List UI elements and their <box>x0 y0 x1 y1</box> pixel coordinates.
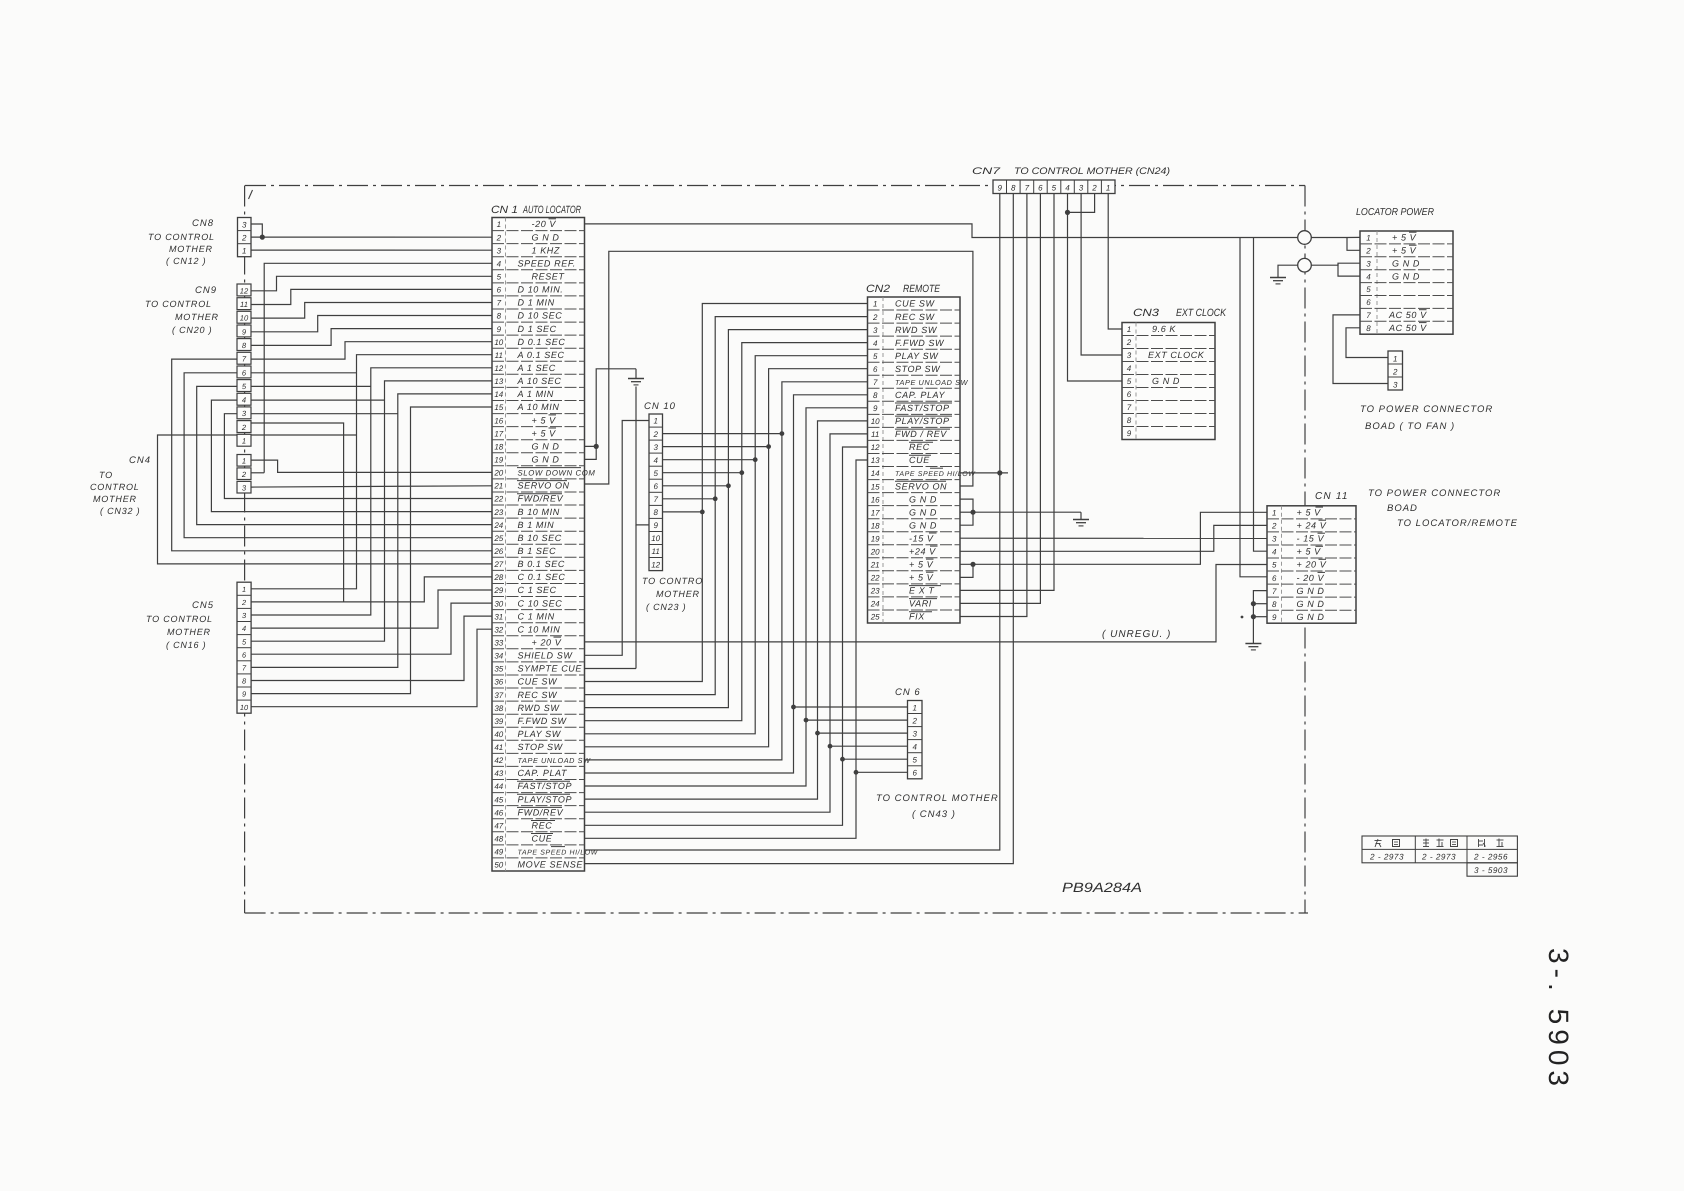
wire CN9 pin7 to CN1 pin10 <box>251 342 492 359</box>
svg-text:23: 23 <box>870 587 880 596</box>
svg-text:C 10 SEC: C 10 SEC <box>518 598 563 608</box>
svg-text:B 1 SEC: B 1 SEC <box>518 546 557 556</box>
svg-text:+ 24 V: + 24 V <box>1297 521 1327 531</box>
svg-text:29: 29 <box>493 586 503 595</box>
svg-text:LOCATOR POWER: LOCATOR POWER <box>1356 207 1434 218</box>
svg-text:7: 7 <box>873 378 878 387</box>
wire CN9 pin9 to CN1 pin8 <box>251 316 492 332</box>
svg-text:21: 21 <box>870 561 880 570</box>
svg-text:A 10 MIN: A 10 MIN <box>517 402 560 412</box>
connector LOCATOR POWER (8-pin table) <box>1356 207 1453 334</box>
svg-text:STOP SW: STOP SW <box>518 742 564 752</box>
svg-text:24: 24 <box>870 600 880 609</box>
svg-text:A 0.1 SEC: A 0.1 SEC <box>517 350 565 360</box>
wire CN9 pin12 to CN1 pin5 <box>251 276 492 291</box>
wire CN4 pin1 to CN1 pin20 SLOW DOWN COM <box>251 460 492 472</box>
svg-text:( CN12 ): ( CN12 ) <box>166 256 206 266</box>
wire CN1 pin14 bus to CN5 pin7 <box>251 394 492 668</box>
svg-text:3: 3 <box>1272 535 1277 544</box>
svg-text:MOTHER: MOTHER <box>167 627 211 637</box>
svg-text:3: 3 <box>1079 184 1084 193</box>
svg-text:45: 45 <box>494 795 503 804</box>
svg-text:TAPE UNLOAD SW: TAPE UNLOAD SW <box>518 756 592 765</box>
wire CN2 pin8 to CN1 pin43 <box>585 395 868 773</box>
svg-text:CUE: CUE <box>532 834 553 844</box>
svg-text:+ 5 V: + 5 V <box>1392 233 1417 243</box>
svg-text:CN5: CN5 <box>192 600 214 611</box>
svg-text:PB9A284A: PB9A284A <box>1062 880 1142 895</box>
wire CN9 pin5 loop to CN1 pin24 <box>197 386 492 524</box>
junction CN6 pin5 <box>840 757 845 762</box>
svg-text:10: 10 <box>871 417 880 426</box>
svg-text:1: 1 <box>497 220 501 229</box>
svg-text:G N D: G N D <box>1297 612 1325 622</box>
svg-text:48: 48 <box>494 835 503 844</box>
wire CN2 pin4 to CN1 pin39 <box>585 343 868 721</box>
svg-text:REC: REC <box>532 821 553 831</box>
svg-text:3-. 5903: 3-. 5903 <box>1543 948 1574 1086</box>
svg-text:SHIELD SW: SHIELD SW <box>518 651 574 661</box>
svg-text:2: 2 <box>241 233 247 242</box>
svg-text:G N D: G N D <box>1152 376 1180 386</box>
connector CN1 AUTO LOCATOR (50-pin table) <box>491 204 599 871</box>
svg-text:2: 2 <box>1365 247 1371 256</box>
wire CN9 pin3 loop to CN1 pin22 <box>224 414 492 499</box>
wire CN5 pin6 to CN1 pin30 <box>251 603 492 654</box>
connector CN6 (6-pin) <box>895 687 922 779</box>
wire CN2 pin2 to CN1 pin37 <box>585 317 868 695</box>
svg-text:+ 5 V: + 5 V <box>909 560 934 570</box>
svg-text:TO POWER CONNECTOR: TO POWER CONNECTOR <box>1368 488 1501 499</box>
label TO CONTROL MOTHER (CN12) <box>148 232 215 266</box>
svg-text:EXT CLOCK: EXT CLOCK <box>1176 307 1227 319</box>
svg-text:CN9: CN9 <box>195 285 217 296</box>
border frame right dash-dot line <box>1304 186 1306 914</box>
svg-text:2 - 2973: 2 - 2973 <box>1369 853 1404 862</box>
svg-text:FWD / REV: FWD / REV <box>895 429 947 439</box>
svg-text:CN8: CN8 <box>192 218 214 229</box>
wire CN7 pin7 to CN2 pin25 FIX <box>960 194 1027 617</box>
svg-text:6: 6 <box>1272 574 1277 583</box>
svg-text:TO CONTROL MOTHER: TO CONTROL MOTHER <box>876 793 999 804</box>
svg-text:1: 1 <box>1393 355 1397 364</box>
svg-text:D 10 MIN.: D 10 MIN. <box>518 285 564 295</box>
svg-text:RESET: RESET <box>532 272 566 282</box>
svg-text:2: 2 <box>241 423 247 432</box>
wire CN6 pin2 stub <box>806 719 908 721</box>
svg-text:TO POWER CONNECTOR: TO POWER CONNECTOR <box>1360 404 1493 415</box>
svg-text:TAPE SPEED HI/LOW: TAPE SPEED HI/LOW <box>895 470 976 478</box>
svg-text:TO CONTROL MOTHER (CN24): TO CONTROL MOTHER (CN24) <box>1014 166 1170 177</box>
svg-text:CAP. PLAT: CAP. PLAT <box>518 768 568 778</box>
svg-text:8: 8 <box>497 312 502 321</box>
svg-text:17: 17 <box>871 508 880 517</box>
svg-text:43: 43 <box>494 769 503 778</box>
svg-text:TO CONTROL: TO CONTROL <box>145 299 212 309</box>
svg-text:15: 15 <box>871 482 880 491</box>
wire CN10 pin7 stub <box>663 498 716 500</box>
wire CN1 pin18/19 GND bracket <box>585 446 597 459</box>
junction CN11 pin9 <box>1251 614 1256 619</box>
junction CN7 pin9 / CN2 pin14 <box>997 470 1002 475</box>
wire CN9 pin3 stub to bus <box>251 413 398 415</box>
svg-text:1: 1 <box>1272 509 1276 518</box>
svg-text:CN7: CN7 <box>972 166 1001 177</box>
wire CN2 pin6 to CN1 pin41 <box>585 369 868 747</box>
connector bubble circle upper on border <box>1298 231 1312 245</box>
wire CN9 pin1 loop to CN1 pin27 <box>158 435 493 564</box>
wire CN8 pin3 bracket to pin2 <box>251 224 262 237</box>
wire CN10 pin4 stub <box>663 459 756 461</box>
svg-text:24: 24 <box>493 521 503 530</box>
svg-text:F.FWD SW: F.FWD SW <box>518 716 568 726</box>
svg-text:2: 2 <box>241 598 246 607</box>
svg-text:( UNREGU. ): ( UNREGU. ) <box>1102 629 1171 640</box>
connector CN8 (3-pin) <box>192 218 251 257</box>
svg-text:20: 20 <box>493 469 503 478</box>
svg-text:TAPE UNLOAD SW: TAPE UNLOAD SW <box>895 378 969 387</box>
svg-text:G N D: G N D <box>909 520 937 530</box>
svg-text:16: 16 <box>494 416 503 425</box>
wire CN6 pin1 stub <box>794 706 908 708</box>
svg-text:31: 31 <box>494 612 503 621</box>
svg-text:26: 26 <box>493 547 503 556</box>
label TO CONTRO MOTHER (CN23) <box>642 576 703 612</box>
svg-text:27: 27 <box>493 560 503 569</box>
connector CN3 EXT CLOCK (9-pin table) <box>1122 307 1227 440</box>
svg-text:44: 44 <box>494 782 503 791</box>
label ( UNREGU. ) <box>1102 629 1171 640</box>
wire CN7 pin9 to CN1 pin49 TAPE SPEED <box>585 194 1000 851</box>
connector CN4 (3-pin) <box>129 455 251 494</box>
svg-text:34: 34 <box>494 652 503 661</box>
svg-text:G N D: G N D <box>1392 271 1420 281</box>
svg-text:12: 12 <box>240 286 249 295</box>
wire CN1 pin13 bus to CN5 pin5 <box>251 381 492 641</box>
svg-text:7: 7 <box>1025 184 1030 193</box>
wire CN10 pin2 stub <box>663 433 782 435</box>
wire CN6 pin6 stub <box>856 771 908 773</box>
svg-text:1: 1 <box>653 417 657 426</box>
svg-text:50: 50 <box>494 861 503 870</box>
svg-text:REC SW: REC SW <box>895 312 936 322</box>
svg-text:3: 3 <box>1127 351 1132 360</box>
svg-text:39: 39 <box>494 717 503 726</box>
svg-text:G N D: G N D <box>1297 586 1325 596</box>
svg-text:D 10 SEC: D 10 SEC <box>518 311 563 321</box>
svg-text:1: 1 <box>242 437 246 446</box>
wire CN9 pin8 to CN1 pin9 <box>251 329 492 346</box>
svg-text:42: 42 <box>494 756 503 765</box>
wire CN8 pin1 to CN1 pin3 1KHZ <box>251 249 492 251</box>
svg-text:SLOW DOWN COM: SLOW DOWN COM <box>518 469 596 478</box>
wire CN1 pin4 SPEED REF to CN4 pin2 <box>264 263 492 473</box>
svg-text:REC SW: REC SW <box>518 690 559 700</box>
svg-text:RWD SW: RWD SW <box>895 325 938 335</box>
svg-text:12: 12 <box>494 364 503 373</box>
wire circle2 to ground <box>1278 265 1298 276</box>
svg-text:9.6 K: 9.6 K <box>1152 324 1176 334</box>
wire ground to CN10 pin9 <box>636 387 649 525</box>
wire CN2 pin11 to CN1 pin46 <box>585 434 868 812</box>
svg-text:BOAD ( TO FAN ): BOAD ( TO FAN ) <box>1365 421 1455 432</box>
label PB9A284A <box>1062 880 1142 895</box>
svg-text:1: 1 <box>1127 325 1131 334</box>
wire CN7 pin8 to CN1 pin50 MOVE SENSE <box>585 194 1014 864</box>
svg-text:6: 6 <box>912 769 917 778</box>
svg-text:3: 3 <box>653 443 658 452</box>
wire CN9 pin6 stub to bus <box>251 372 357 374</box>
svg-text:EXT CLOCK: EXT CLOCK <box>1148 350 1205 360</box>
svg-text:2 - 2973: 2 - 2973 <box>1421 853 1456 862</box>
svg-text:+24 V: +24 V <box>909 547 936 557</box>
svg-text:G N D: G N D <box>1297 599 1325 609</box>
wire CN10 pin8 stub <box>663 511 703 513</box>
svg-text:CUE SW: CUE SW <box>895 299 936 309</box>
svg-text:9: 9 <box>997 184 1002 193</box>
junction CN10 pin7 <box>713 496 718 501</box>
svg-text:B 10 MIN: B 10 MIN <box>518 507 560 517</box>
wire CN7 pin5 to CN2 pin23 EXT <box>960 194 1054 591</box>
svg-text:9: 9 <box>873 404 878 413</box>
svg-text:+ 5 V: + 5 V <box>1297 508 1322 518</box>
svg-text:7: 7 <box>653 495 658 504</box>
svg-text:TO LOCATOR/REMOTE: TO LOCATOR/REMOTE <box>1397 518 1518 529</box>
svg-text:+ 20 V: + 20 V <box>532 638 562 648</box>
svg-text:2: 2 <box>1126 338 1132 347</box>
svg-text:20: 20 <box>870 548 880 557</box>
svg-text:2: 2 <box>872 313 878 322</box>
svg-text:1: 1 <box>1106 184 1110 193</box>
svg-text:CN2: CN2 <box>866 283 890 295</box>
svg-text:C 1 MIN: C 1 MIN <box>518 611 555 621</box>
svg-text:SERVO ON: SERVO ON <box>518 481 570 491</box>
svg-text:9: 9 <box>1127 429 1132 438</box>
svg-text:CN 1: CN 1 <box>491 204 518 216</box>
svg-text:PLAY SW: PLAY SW <box>518 729 562 739</box>
svg-text:D 0.1 SEC: D 0.1 SEC <box>518 337 566 347</box>
junction at CN8 pin2 wire <box>260 235 265 240</box>
svg-text:4: 4 <box>1127 364 1132 373</box>
ground symbol below CN11 <box>1245 642 1261 650</box>
svg-text:8: 8 <box>873 391 878 400</box>
wire CN11 pins7-9 GND bracket <box>1253 591 1267 642</box>
label TO CONTROL MOTHER (CN32) <box>90 470 140 516</box>
wire CN7 pin1 to CN3 pin1 9.6K <box>1108 194 1122 330</box>
wire CN2 pin9 to CN1 pin44 <box>585 408 868 786</box>
svg-text:5: 5 <box>1052 184 1057 193</box>
ground symbol near CN2 <box>1073 512 1089 526</box>
svg-text:- 15 V: - 15 V <box>1297 534 1325 544</box>
wire CN1 pin21 SERVO ON to CN2 pin15 <box>585 251 973 486</box>
svg-text:+ 5 V: + 5 V <box>909 573 934 583</box>
svg-text:PLAY SW: PLAY SW <box>895 351 939 361</box>
svg-text:6: 6 <box>497 286 502 295</box>
wire CN2 pin5 to CN1 pin40 <box>585 356 868 734</box>
junction CN2 GND bracket <box>970 510 975 515</box>
wire CN9 pin11 to CN1 pin6 <box>251 289 492 304</box>
wire circle to LOCATOR POWER pin1/pin2 <box>1311 237 1360 250</box>
svg-text:AC 50 V: AC 50 V <box>1388 323 1427 333</box>
svg-text:( CN43 ): ( CN43 ) <box>912 809 956 820</box>
wire CN5 pin8 to CN1 pin31 <box>251 616 492 680</box>
connector J-FAN 3-pin (to power connector board / fan) <box>1388 351 1403 390</box>
svg-text:5: 5 <box>497 273 502 282</box>
wire CN2 GND to ground symbol <box>973 511 1081 513</box>
svg-text:MOTHER: MOTHER <box>93 494 137 504</box>
svg-text:B 10 SEC: B 10 SEC <box>518 533 562 543</box>
svg-text:11: 11 <box>495 351 503 360</box>
wire LOCATOR POWER pin8 to fan pin1 <box>1346 328 1388 358</box>
svg-text:RWD SW: RWD SW <box>518 703 561 713</box>
svg-text:8: 8 <box>1366 324 1371 333</box>
svg-text:FWD/REV: FWD/REV <box>518 807 564 817</box>
svg-text:19: 19 <box>494 456 503 465</box>
svg-text:7: 7 <box>1366 311 1371 320</box>
wire CN9 pin7 loop to CN1 pin26 <box>172 359 492 551</box>
label TO CONTROL MOTHER (CN43) <box>876 793 999 820</box>
svg-text:-15 V: -15 V <box>909 533 934 543</box>
stray dot near CN11 pin9 <box>1241 616 1244 619</box>
svg-text:3: 3 <box>873 326 878 335</box>
junction CN6 pin2 <box>804 718 809 723</box>
wire CN2 pin3 to CN1 pin38 <box>585 330 868 708</box>
wire CN9 pin4 stub to bus <box>251 399 385 401</box>
svg-text:1: 1 <box>242 585 246 594</box>
svg-text:19: 19 <box>871 534 880 543</box>
svg-text:TO CONTRO: TO CONTRO <box>642 576 703 586</box>
svg-text:TO: TO <box>99 470 113 480</box>
svg-text:B 1 MIN: B 1 MIN <box>518 520 555 530</box>
svg-text:7: 7 <box>497 299 502 308</box>
connector bubble circle lower on border <box>1298 258 1312 272</box>
svg-text:PLAY/STOP: PLAY/STOP <box>518 794 573 804</box>
svg-text:38: 38 <box>494 704 503 713</box>
svg-text:5: 5 <box>653 469 658 478</box>
wire CN9 pin1 right stub to bus <box>251 434 357 436</box>
svg-text:6: 6 <box>1366 298 1371 307</box>
svg-text:2: 2 <box>241 470 247 479</box>
svg-text:+ 5 V: + 5 V <box>1392 246 1417 256</box>
svg-text:( CN23 ): ( CN23 ) <box>646 602 686 612</box>
wire CN7 pin3 to CN3 pin3 EXT CLOCK <box>1081 194 1122 356</box>
svg-text:9: 9 <box>1272 613 1277 622</box>
wire CN1 pin12 bus to CN5 pin3 <box>251 368 492 615</box>
svg-text:C 10 MIN: C 10 MIN <box>518 624 561 634</box>
svg-text:23: 23 <box>493 508 503 517</box>
svg-text:9: 9 <box>242 690 246 699</box>
wire GND bracket to ground symbol <box>596 369 636 447</box>
svg-text:SPEED REF.: SPEED REF. <box>518 258 576 268</box>
svg-text:E X T: E X T <box>909 586 935 596</box>
wire LOCATOR POWER pin7 to fan pin3 <box>1333 315 1388 384</box>
svg-text:9: 9 <box>497 325 502 334</box>
svg-text:VARI: VARI <box>909 599 932 609</box>
svg-text:TO CONTROL: TO CONTROL <box>148 232 215 242</box>
svg-text:4: 4 <box>242 624 246 633</box>
wire CN7 pin4 to CN3 pin5 GND <box>1068 194 1123 382</box>
svg-text:10: 10 <box>240 314 249 323</box>
svg-text:30: 30 <box>494 599 503 608</box>
svg-text:4: 4 <box>1065 184 1070 193</box>
svg-text:17: 17 <box>494 429 503 438</box>
junction CN6 pin4 <box>828 744 833 749</box>
wire CN1 pin11 bus to CN5 pin1 <box>251 355 492 589</box>
wire ground bus down to CN1 pin35 <box>635 525 637 669</box>
svg-text:11: 11 <box>871 430 879 439</box>
svg-text:1: 1 <box>873 300 877 309</box>
svg-text:G N D: G N D <box>532 441 560 451</box>
svg-text:14: 14 <box>871 469 880 478</box>
svg-text:10: 10 <box>240 703 249 712</box>
wire CN7 pin6 to CN2 pin24 VARI <box>960 194 1040 604</box>
svg-text:3: 3 <box>242 220 247 229</box>
svg-text:3: 3 <box>1366 259 1371 268</box>
border frame bottom dash-dot line <box>245 912 1308 914</box>
wire circle to LOCATOR POWER pin3/pin4 <box>1311 263 1360 276</box>
svg-text:G N D: G N D <box>532 455 560 465</box>
wire CN9 pin2 to CN5 pin2 wire <box>251 423 344 602</box>
wire CN2 pin14 stub <box>960 472 1008 474</box>
wire CN5 pin10 to CN1 pin32 <box>251 629 492 707</box>
svg-text:SYMPTE CUE: SYMPTE CUE <box>518 664 583 674</box>
svg-text:1: 1 <box>912 703 916 712</box>
wire CN9 pin5 stub to bus <box>251 385 371 387</box>
svg-text:4: 4 <box>1272 548 1277 557</box>
svg-text:G N D: G N D <box>1392 258 1420 268</box>
svg-text:-20 V: -20 V <box>532 219 557 229</box>
label TO POWER CONNECTOR BOAD (TO FAN) <box>1360 404 1493 432</box>
svg-text:8: 8 <box>1127 416 1132 425</box>
svg-text:15: 15 <box>494 403 503 412</box>
svg-text:( CN20 ): ( CN20 ) <box>172 325 212 335</box>
junction CN10 pin4 <box>753 457 758 462</box>
connector CN11 TO POWER CONNECTOR BOARD (9-pin table) <box>1267 488 1518 623</box>
wire CN2 +5V to CN11 pin1 <box>973 512 1267 564</box>
svg-text:33: 33 <box>494 639 503 648</box>
svg-text:6: 6 <box>873 365 878 374</box>
wire CN10 pin3 stub <box>663 446 769 448</box>
junction at CN1 pin18 bracket <box>594 444 599 449</box>
svg-text:5: 5 <box>1272 561 1277 570</box>
svg-text:11: 11 <box>240 300 248 309</box>
label TO CONTROL MOTHER (CN20) <box>145 299 219 335</box>
svg-text:CN 11: CN 11 <box>1315 491 1349 502</box>
wire CN2 pins16-18 GND bracket <box>960 499 973 525</box>
svg-text:2: 2 <box>496 233 502 242</box>
svg-text:+ 20 V: + 20 V <box>1297 560 1327 570</box>
svg-text:3: 3 <box>1393 381 1398 390</box>
svg-text:A 1 SEC: A 1 SEC <box>517 363 556 373</box>
junction CN2 +5V bracket <box>970 562 975 567</box>
svg-text:4: 4 <box>653 456 658 465</box>
svg-text:FAST/STOP: FAST/STOP <box>518 781 573 791</box>
junction CN10 pin5 <box>739 470 744 475</box>
junction CN11 pin8 <box>1251 601 1256 606</box>
svg-text:CONTROL: CONTROL <box>90 482 140 492</box>
svg-text:1: 1 <box>242 246 246 255</box>
wire CN2 pin12 to CN1 pin47 <box>585 447 868 825</box>
svg-text:8: 8 <box>1011 184 1016 193</box>
junction CN10 pin6 <box>726 483 731 488</box>
connector CN5 (10-pin) <box>192 582 251 713</box>
svg-text:STOP SW: STOP SW <box>895 364 941 374</box>
connector CN2 REMOTE (25-pin table) <box>866 283 976 623</box>
svg-text:12: 12 <box>871 443 880 452</box>
revision table <box>1362 836 1517 876</box>
svg-text:41: 41 <box>494 743 503 752</box>
svg-text:REC: REC <box>909 442 930 452</box>
